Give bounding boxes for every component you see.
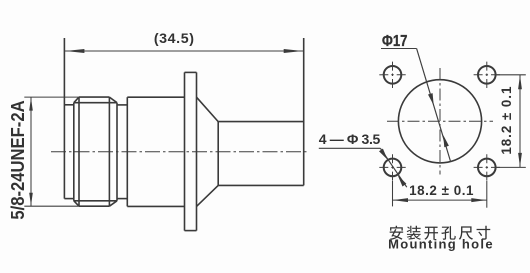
svg-text:18.2 ± 0.1: 18.2 ± 0.1 xyxy=(499,86,514,155)
svg-text:Φ17: Φ17 xyxy=(382,33,408,50)
svg-text:(34.5): (34.5) xyxy=(154,31,195,47)
svg-text:18.2 ± 0.1: 18.2 ± 0.1 xyxy=(409,183,474,198)
svg-text:5/8-24UNEF-2A: 5/8-24UNEF-2A xyxy=(7,100,28,220)
svg-text:4 — Φ 3.5: 4 — Φ 3.5 xyxy=(319,131,381,147)
svg-text:Mounting hole: Mounting hole xyxy=(388,237,494,252)
